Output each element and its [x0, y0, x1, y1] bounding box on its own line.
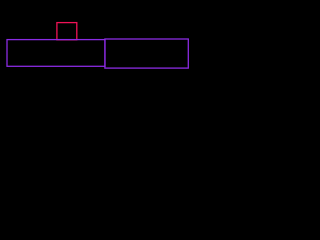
box B3 (purple outline, right) [105, 39, 188, 68]
box B2 (purple outline, left) [7, 40, 105, 67]
box B1 (small red outline, top center-left) [57, 23, 77, 40]
